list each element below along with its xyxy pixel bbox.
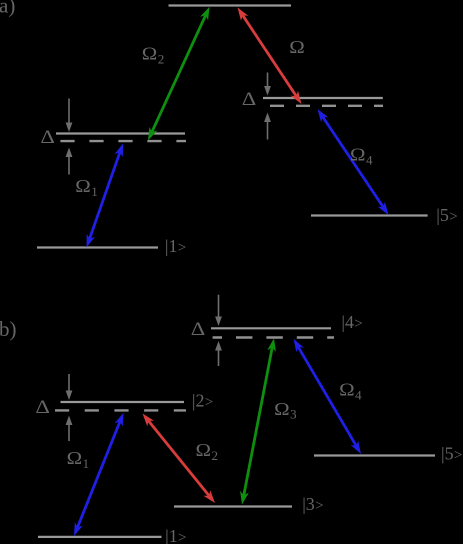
- level |4> dashed (b): [213, 336, 334, 338]
- svg-text:a): a): [0, 0, 15, 18]
- level top line (a): [169, 4, 292, 6]
- delta marker |2> (b): down arrow: [66, 374, 73, 400]
- delta marker |4> (b): up arrow: [215, 341, 222, 366]
- arrow Omega4 (b) blue double-headed: [294, 339, 362, 454]
- delta marker |4> (b): down arrow: [215, 295, 222, 326]
- svg-text:Δ: Δ: [242, 89, 257, 110]
- arrow Omega (a) red double-headed: [238, 8, 302, 105]
- arrow Omega2 (b) red double-headed: [143, 414, 216, 504]
- svg-text:Δ: Δ: [40, 127, 55, 148]
- level |5> line (b): [314, 454, 435, 456]
- level mid-right solid (a): [263, 97, 383, 99]
- arrow Omega1 (a) blue double-headed: [87, 144, 124, 248]
- svg-text:Δ: Δ: [35, 397, 50, 418]
- arrow Omega2 (a) green double-headed: [148, 7, 210, 141]
- svg-text:Δ: Δ: [191, 319, 206, 340]
- arrow Omega4 (a) blue double-headed: [318, 109, 389, 215]
- level mid-right dashed (a): [270, 105, 383, 107]
- level mid-left dashed (a): [60, 140, 186, 142]
- level |5> line (a): [311, 214, 428, 216]
- level |4> solid (b): [211, 327, 331, 329]
- level |3> line (b): [174, 505, 292, 507]
- delta marker right (a): down arrow: [264, 73, 271, 96]
- svg-text:b): b): [0, 317, 17, 341]
- delta marker right (a): up arrow: [264, 113, 271, 140]
- level |1> line (a): [37, 246, 158, 248]
- arrow Omega3 (b) green double-headed: [240, 338, 276, 504]
- level |2> solid (b): [61, 401, 185, 403]
- delta marker |2> (b): up arrow: [66, 416, 73, 442]
- delta marker left (a): up arrow: [66, 148, 73, 175]
- level |2> dashed (b): [55, 409, 186, 411]
- delta marker left (a): down arrow: [66, 99, 73, 133]
- level |1> line (b): [38, 536, 162, 538]
- svg-text:Ω: Ω: [289, 37, 305, 57]
- level mid-left solid (a): [56, 132, 185, 134]
- arrow Omega1 (b) blue double-headed: [74, 413, 124, 536]
